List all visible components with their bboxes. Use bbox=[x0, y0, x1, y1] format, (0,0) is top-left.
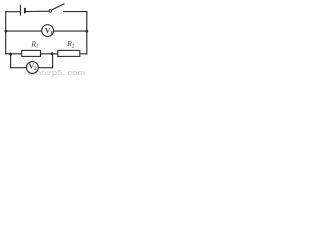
wire resistor row bbox=[6, 53, 87, 55]
switch S1 lever bbox=[52, 4, 65, 10]
voltmeter V2 bbox=[27, 62, 39, 74]
wire V2 branch left vertical bbox=[10, 54, 12, 68]
battery B1 short plate bbox=[24, 8, 26, 13]
switch S1 pivot bbox=[49, 10, 52, 13]
wire left vertical bbox=[5, 12, 7, 54]
wire switch to top-right corner bbox=[64, 11, 87, 13]
svg-text:p5. com: p5. com bbox=[52, 70, 85, 77]
node D junction dot between R1 and R2 bbox=[51, 52, 54, 55]
node C junction dot lower-left bbox=[9, 53, 12, 56]
wire middle V1 row bbox=[6, 30, 87, 32]
resistor R1 box bbox=[22, 50, 41, 56]
voltmeter V1 bbox=[42, 25, 54, 37]
battery B1 long plate bbox=[19, 5, 21, 16]
background bbox=[0, 0, 91, 77]
wire battery to switch bbox=[25, 10, 49, 12]
wire V2 bottom horizontal bbox=[11, 67, 53, 69]
node B junction dot middle-right bbox=[85, 30, 88, 33]
wire V2 branch right vertical bbox=[52, 54, 54, 68]
wire right vertical bbox=[86, 12, 88, 54]
node A junction dot middle-left bbox=[5, 30, 8, 33]
resistor R2 box bbox=[58, 50, 80, 56]
wire top-left segment bbox=[6, 11, 20, 13]
